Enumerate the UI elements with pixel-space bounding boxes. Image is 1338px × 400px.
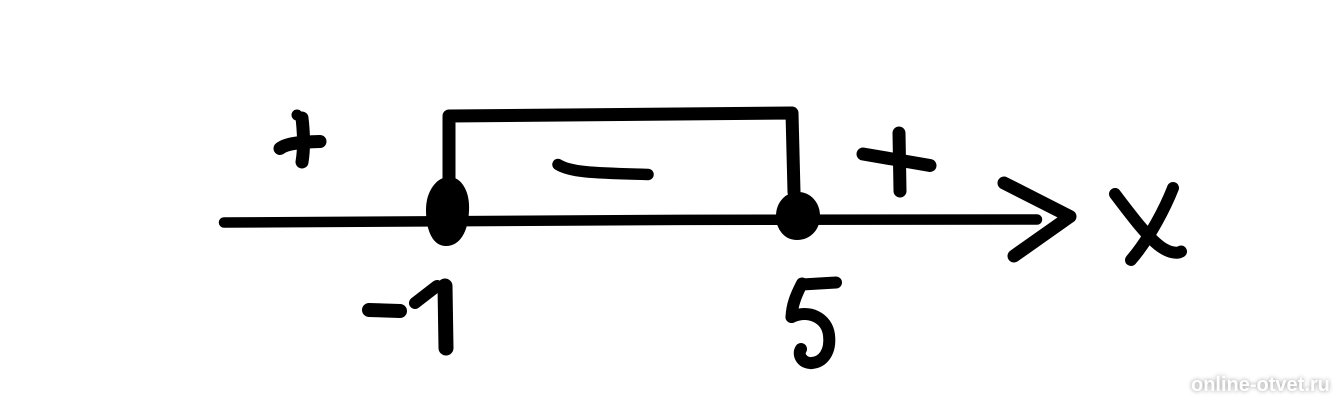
- label 5 below axis: [802, 283, 836, 285]
- minus sign middle region: [558, 165, 648, 175]
- plus sign left region: [280, 142, 320, 149]
- plus sign right region: [863, 154, 930, 166]
- wire: arrowhead chevron of axis: [1004, 183, 1070, 256]
- label -1 below axis: [369, 310, 400, 311]
- wire: main number line axis: [224, 219, 1037, 222]
- wire: interval bracket over [-1,5]: [449, 113, 794, 192]
- watermark online-otvet.ru: [1191, 374, 1330, 397]
- node 5: filled point at 5: [777, 193, 819, 239]
- node X: axis label letter X: [1115, 194, 1181, 253]
- node -1: filled point at -1: [427, 178, 468, 245]
